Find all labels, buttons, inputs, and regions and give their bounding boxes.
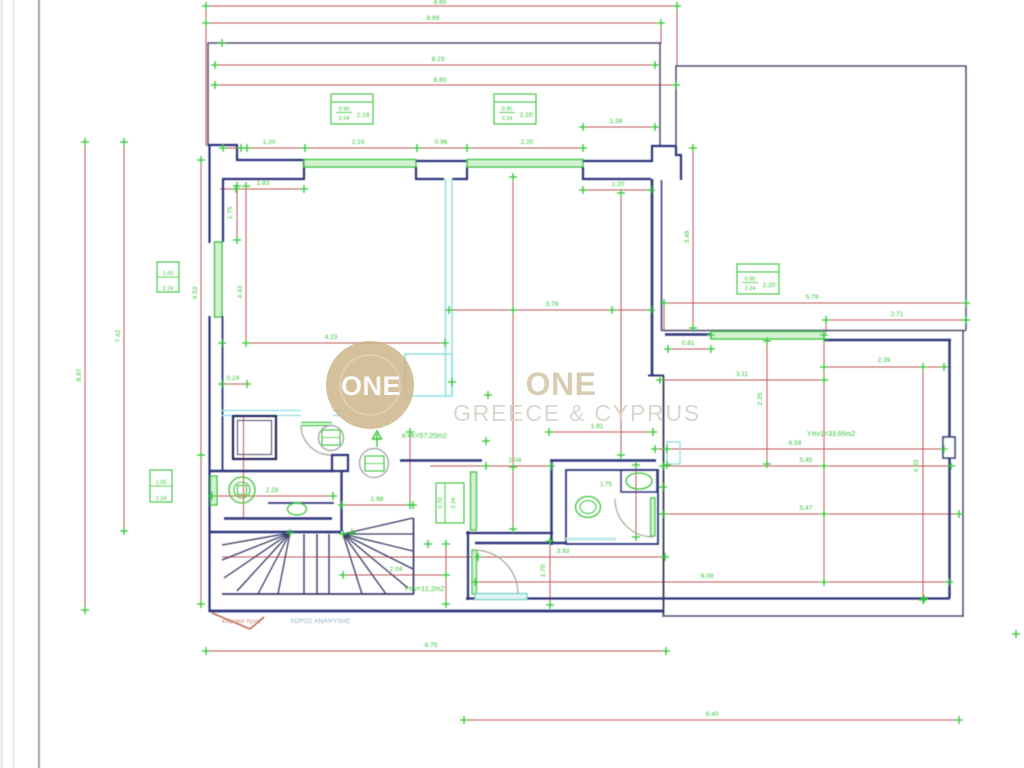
bath north wall <box>209 470 334 473</box>
extension line left <box>205 2 207 146</box>
wing outer right wall <box>962 331 964 617</box>
stair straight treads <box>303 534 305 594</box>
svg-text:2.24: 2.24 <box>163 286 174 292</box>
svg-text:0.90: 0.90 <box>339 107 350 113</box>
wall block top right <box>583 146 681 180</box>
svg-text:1.75: 1.75 <box>227 206 234 219</box>
dim 1.70 vertical <box>549 541 551 605</box>
closet door green <box>471 472 477 530</box>
bath vanity line <box>268 502 334 504</box>
dim 8.85 top <box>206 5 677 7</box>
wc cistern <box>621 470 657 492</box>
bedroom1 window <box>475 594 527 600</box>
wc cistern oval <box>626 473 652 489</box>
svg-text:2.19: 2.19 <box>352 139 365 146</box>
page left edge band <box>0 0 3 768</box>
dim 8.75 bottom <box>206 650 666 652</box>
wc door leaf <box>651 498 656 536</box>
dim 1.20 right <box>583 189 651 191</box>
stair bottom edge <box>222 593 414 595</box>
dim 7.42 vertical <box>123 142 125 531</box>
door label top B <box>494 94 536 124</box>
dim 5.79 <box>664 302 966 304</box>
svg-text:1.20: 1.20 <box>263 139 276 146</box>
wing top outer line <box>661 330 966 332</box>
dim 2.26 vertical <box>766 341 768 464</box>
dim 6.58 <box>655 448 944 450</box>
svg-text:2.71: 2.71 <box>891 311 904 318</box>
stair right fan treads <box>343 518 413 534</box>
svg-text:2.24: 2.24 <box>156 496 167 502</box>
terrace top outline <box>208 43 660 146</box>
kitchen cyan counter <box>405 354 452 396</box>
svg-text:4.53: 4.53 <box>192 286 199 299</box>
svg-text:0.96: 0.96 <box>435 139 448 146</box>
wall south of wc <box>475 542 567 544</box>
hall west wall <box>340 472 342 531</box>
svg-text:1.70: 1.70 <box>540 564 547 577</box>
svg-text:1.20: 1.20 <box>612 181 625 188</box>
thin porch line <box>663 376 665 615</box>
svg-text:2.19: 2.19 <box>357 112 370 119</box>
dim line bathroom vertical <box>243 415 245 519</box>
extension line right B <box>660 23 662 44</box>
svg-text:5.45: 5.45 <box>800 457 813 464</box>
door symbol circle 1 <box>319 426 344 451</box>
watermark logo disc <box>326 341 414 429</box>
dim 4.83 vertical <box>922 367 924 600</box>
dim 9.09 <box>475 581 949 583</box>
bedroom1 door leaf <box>472 550 477 594</box>
outer left wall mid <box>208 316 210 612</box>
svg-text:ONE: ONE <box>526 366 597 402</box>
svg-text:5.47: 5.47 <box>800 505 813 512</box>
svg-text:6.58: 6.58 <box>789 440 802 447</box>
dim 3.11 <box>660 379 824 381</box>
porch cyan box <box>667 442 680 464</box>
svg-text:4.83: 4.83 <box>913 459 920 472</box>
wing inner top wall east part <box>824 339 951 342</box>
extension line right A <box>676 2 678 66</box>
wing inner top wall west part <box>665 333 713 336</box>
wc toilet <box>576 497 601 518</box>
wall block top center <box>416 161 467 179</box>
dim 8.80 <box>215 84 676 86</box>
svg-text:4.43: 4.43 <box>237 285 244 298</box>
door symbol circle 2 <box>360 449 389 478</box>
svg-text:8.80: 8.80 <box>434 77 447 84</box>
svg-text:8.75: 8.75 <box>425 642 438 649</box>
svg-text:1.75: 1.75 <box>600 482 612 488</box>
svg-text:7.42: 7.42 <box>115 329 122 342</box>
wc room box <box>566 470 658 544</box>
shower square <box>233 416 276 459</box>
door label wc rotated <box>436 483 464 523</box>
dim 3.79 <box>449 309 651 311</box>
stair right edge <box>413 518 415 594</box>
dim line wc vertical <box>635 465 637 537</box>
stair north wall <box>210 531 341 534</box>
bath door arc <box>301 425 331 455</box>
extension stub C <box>663 303 665 331</box>
dim 1.20 top wall <box>223 147 305 149</box>
svg-text:2.24: 2.24 <box>745 286 756 292</box>
wc door arc <box>615 499 653 537</box>
dim 2.39 <box>824 366 944 368</box>
svg-text:2.20: 2.20 <box>521 139 534 146</box>
bath south wall <box>224 517 332 519</box>
bath door leaf <box>301 423 332 426</box>
svg-text:1.83: 1.83 <box>257 180 270 187</box>
svg-text:2.28: 2.28 <box>266 487 279 494</box>
svg-text:1.38: 1.38 <box>610 118 623 125</box>
svg-text:2.24: 2.24 <box>451 498 457 509</box>
svg-text:8.23: 8.23 <box>432 56 445 63</box>
svg-text:ΧΩΡΟΣ ΑΝΑΨΥΧΗΣ: ΧΩΡΟΣ ΑΝΑΨΥΧΗΣ <box>290 618 350 625</box>
bath cyan counter line <box>221 411 341 416</box>
dim 1.04 closet <box>430 465 553 467</box>
svg-text:Κ+Κ=57,20m2: Κ+Κ=57,20m2 <box>402 433 447 440</box>
svg-text:κλίμακα προς: κλίμακα προς <box>222 617 261 625</box>
svg-text:2.20: 2.20 <box>763 282 776 289</box>
dim 3.93 <box>222 556 665 558</box>
svg-text:0.24: 0.24 <box>227 375 240 382</box>
extension stub A <box>825 320 827 333</box>
svg-text:0.81: 0.81 <box>682 340 695 347</box>
stair left fan treads <box>222 533 290 545</box>
wc north wall <box>550 459 656 462</box>
svg-text:9.09: 9.09 <box>701 573 714 580</box>
dim 8.23 <box>215 64 655 66</box>
outer left wall upper <box>208 144 210 243</box>
wing wall notch <box>943 437 955 458</box>
dim 1.81 <box>549 431 653 433</box>
window top A <box>304 160 416 168</box>
window west lower <box>211 476 218 505</box>
svg-text:1.98: 1.98 <box>371 496 384 503</box>
outer bottom wall left <box>209 610 663 613</box>
svg-text:3.93: 3.93 <box>557 548 570 555</box>
closet south wall <box>466 532 553 534</box>
bath sink <box>288 503 307 515</box>
svg-text:9.40: 9.40 <box>706 711 719 718</box>
window label west upper <box>157 262 179 292</box>
bedroom1 door arc <box>474 550 518 594</box>
svg-text:1.04: 1.04 <box>509 457 522 464</box>
svg-text:3.49: 3.49 <box>684 230 691 243</box>
dim line stair vertical <box>445 544 447 604</box>
svg-text:2.20: 2.20 <box>520 112 533 119</box>
svg-text:4.23: 4.23 <box>325 334 338 341</box>
svg-text:2.04: 2.04 <box>390 566 403 573</box>
left margin grey line <box>38 0 40 768</box>
left margin faint line <box>13 0 15 768</box>
svg-text:8.97: 8.97 <box>76 368 83 381</box>
wc west outer wall <box>550 460 552 545</box>
dim line kitchen vertical <box>512 177 514 529</box>
dim line hall vertical <box>409 430 411 505</box>
svg-text:2.24: 2.24 <box>502 116 513 122</box>
outer bottom wall right <box>662 615 964 617</box>
dim 8.69 <box>206 22 661 24</box>
svg-text:0.90: 0.90 <box>502 107 513 113</box>
north arrow <box>373 431 382 447</box>
terrace right big outline <box>676 66 966 330</box>
wall living/bed separator <box>651 179 654 375</box>
dim 4.23 <box>246 342 445 344</box>
dim 2.19 <box>305 147 417 149</box>
dim 2.20 <box>467 147 583 149</box>
dim 1.75 vertical <box>236 186 238 240</box>
dim 2.04 <box>343 574 446 576</box>
dim 9.40 bottom <box>464 719 959 721</box>
dimension tick crosses <box>202 2 210 10</box>
svg-text:Υπν1=33,65m2: Υπν1=33,65m2 <box>807 431 855 438</box>
dim 0.24 <box>222 383 247 385</box>
top-left corner wall <box>209 145 304 242</box>
wing inner bottom wall <box>466 597 950 599</box>
extension stub B <box>965 303 967 330</box>
dim 0.96 <box>417 147 467 149</box>
dim line bedroom vertical <box>823 339 825 582</box>
kitchen cyan line B <box>451 179 453 396</box>
dim 1.83 <box>220 188 304 190</box>
dim 3.49 vertical <box>692 148 694 328</box>
window wing top <box>711 332 824 340</box>
svg-text:0.90: 0.90 <box>745 277 756 283</box>
svg-text:2.39: 2.39 <box>878 357 891 364</box>
dim 2.71 <box>826 319 966 321</box>
svg-text:5.79: 5.79 <box>806 294 819 301</box>
dim 8.97 vertical <box>84 142 86 610</box>
dim line living vertical <box>620 193 622 455</box>
svg-text:2.26: 2.26 <box>757 392 764 405</box>
svg-text:GREECE & CYPRUS: GREECE & CYPRUS <box>453 400 701 426</box>
bedroom1 west wall <box>467 531 469 600</box>
window label west lower <box>150 470 172 502</box>
wing inner right wall <box>948 340 950 598</box>
svg-text:3.79: 3.79 <box>546 301 559 308</box>
inner left wall mid <box>222 316 224 470</box>
dim 0.81 <box>668 348 711 350</box>
svg-text:2.24: 2.24 <box>339 116 350 122</box>
window west upper <box>215 242 223 317</box>
svg-text:Υπν=12,2m2: Υπν=12,2m2 <box>404 586 445 593</box>
dim 1.38 <box>583 126 655 128</box>
wall inner east line <box>661 180 663 330</box>
dim 5.45 <box>663 465 951 467</box>
svg-text:0.70: 0.70 <box>438 498 444 509</box>
wc cyan shower band <box>566 538 616 541</box>
door label top A <box>331 94 373 124</box>
entrance arrow <box>212 613 264 629</box>
wall step at kitchen SE <box>648 375 664 377</box>
svg-text:3.11: 3.11 <box>736 371 749 378</box>
hall wall block <box>332 455 348 471</box>
svg-text:ONE: ONE <box>341 371 401 401</box>
hall north wall <box>400 459 482 462</box>
dim 2.28 <box>209 495 333 497</box>
door label wing <box>737 264 779 294</box>
dim 5.47 <box>663 513 959 515</box>
svg-text:1.00: 1.00 <box>163 271 174 277</box>
svg-text:1.00: 1.00 <box>156 480 167 486</box>
dim 1.98 <box>342 504 413 506</box>
svg-text:8.85: 8.85 <box>434 0 447 6</box>
dim 4.43 vertical <box>245 186 247 343</box>
dim 4.53 vertical <box>200 160 202 604</box>
kitchen cyan line A <box>445 179 447 396</box>
bath toilet <box>229 477 255 503</box>
svg-text:8.69: 8.69 <box>427 15 440 22</box>
window top B <box>467 160 583 168</box>
